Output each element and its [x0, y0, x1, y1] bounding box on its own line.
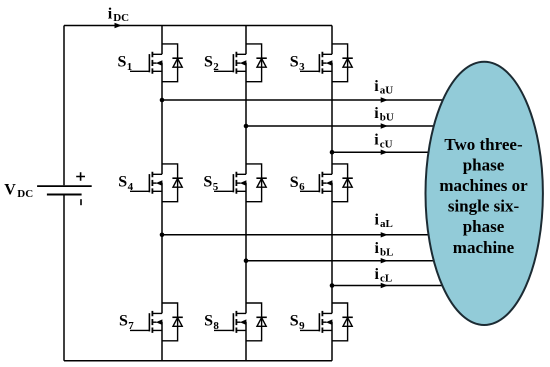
svg-text:phase: phase [463, 155, 505, 174]
svg-text:aL: aL [380, 218, 393, 230]
svg-text:S: S [203, 174, 212, 191]
svg-text:cU: cU [380, 138, 393, 150]
svg-text:2: 2 [213, 61, 219, 73]
svg-text:i: i [374, 78, 379, 95]
svg-text:S: S [204, 313, 213, 330]
svg-text:i: i [375, 212, 380, 229]
svg-text:aU: aU [380, 85, 394, 97]
svg-text:bU: bU [380, 111, 394, 123]
svg-text:machine: machine [453, 238, 515, 257]
svg-text:4: 4 [128, 181, 134, 193]
svg-text:bL: bL [380, 247, 393, 259]
svg-text:i: i [108, 6, 113, 23]
svg-text:i: i [375, 240, 380, 257]
svg-text:cL: cL [380, 272, 392, 284]
svg-text:i: i [374, 132, 379, 149]
svg-text:phase: phase [463, 217, 505, 236]
svg-text:DC: DC [113, 12, 129, 24]
svg-text:i: i [375, 266, 380, 283]
svg-text:S: S [118, 174, 127, 191]
svg-text:single six-: single six- [448, 197, 520, 216]
svg-text:S: S [204, 54, 213, 71]
svg-text:9: 9 [299, 320, 305, 332]
svg-text:S: S [290, 313, 299, 330]
svg-text:DC: DC [17, 188, 33, 200]
svg-text:i: i [374, 105, 379, 122]
svg-text:S: S [119, 313, 128, 330]
svg-text:Two three-: Two three- [444, 135, 523, 154]
svg-text:3: 3 [299, 61, 305, 73]
svg-text:7: 7 [128, 320, 134, 332]
svg-text:machines or: machines or [439, 176, 528, 195]
svg-text:S: S [290, 54, 299, 71]
svg-text:5: 5 [213, 181, 219, 193]
svg-text:S: S [290, 174, 299, 191]
svg-text:S: S [118, 54, 127, 71]
svg-text:1: 1 [127, 61, 133, 73]
svg-text:8: 8 [213, 320, 219, 332]
svg-text:V: V [4, 182, 16, 199]
svg-text:6: 6 [299, 181, 305, 193]
